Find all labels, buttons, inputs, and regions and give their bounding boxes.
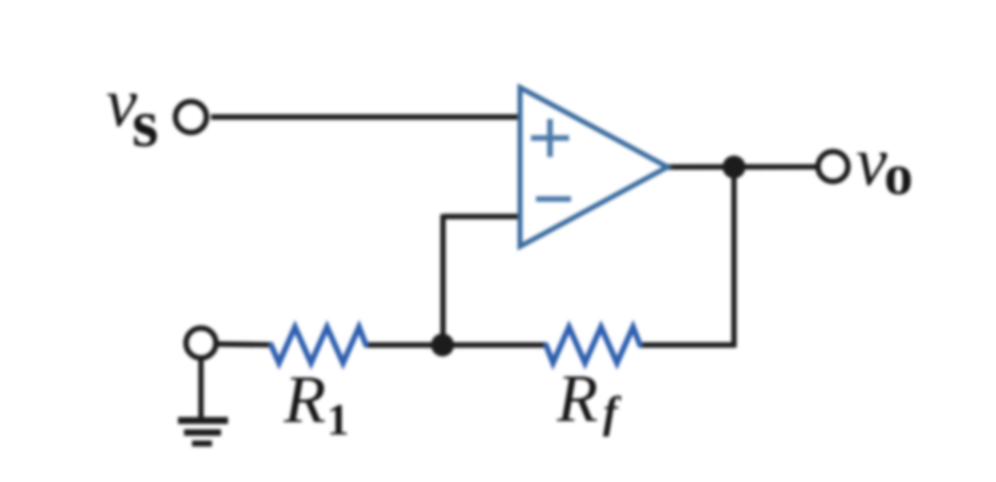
svg-text:R: R bbox=[283, 361, 326, 437]
terminal vo open circle bbox=[818, 152, 848, 182]
wire ground terminal to R1 bbox=[214, 341, 273, 347]
op-amp minus input marking bbox=[536, 196, 571, 202]
svg-text:f: f bbox=[603, 388, 622, 437]
op-amp plus input marking bbox=[531, 119, 569, 157]
svg-text:1: 1 bbox=[327, 395, 349, 444]
resistor Rf bbox=[546, 327, 640, 363]
terminal ground open circle bbox=[186, 328, 216, 358]
wire from vs terminal to op-amp noninverting input bbox=[211, 114, 521, 119]
node A junction dot bbox=[431, 334, 454, 357]
svg-text:o: o bbox=[884, 142, 913, 207]
wire Rf to right corner bbox=[639, 342, 736, 347]
resistor R1 bbox=[271, 327, 366, 363]
wire ground stub bbox=[198, 358, 203, 419]
wire R1 to node A bbox=[366, 342, 444, 347]
ground bbox=[178, 421, 228, 444]
op-amp U1 bbox=[520, 88, 668, 247]
svg-text:R: R bbox=[556, 360, 598, 436]
wire inverting input vertical bbox=[440, 214, 445, 345]
wire op-amp output bbox=[667, 164, 817, 170]
terminal vs open circle bbox=[176, 102, 207, 133]
wire right vertical feedback bbox=[731, 167, 736, 347]
wire node A to Rf bbox=[443, 342, 547, 347]
svg-text:s: s bbox=[132, 85, 158, 161]
node junction dot at output bbox=[723, 156, 746, 179]
wire inverting input horizontal bbox=[443, 214, 521, 219]
